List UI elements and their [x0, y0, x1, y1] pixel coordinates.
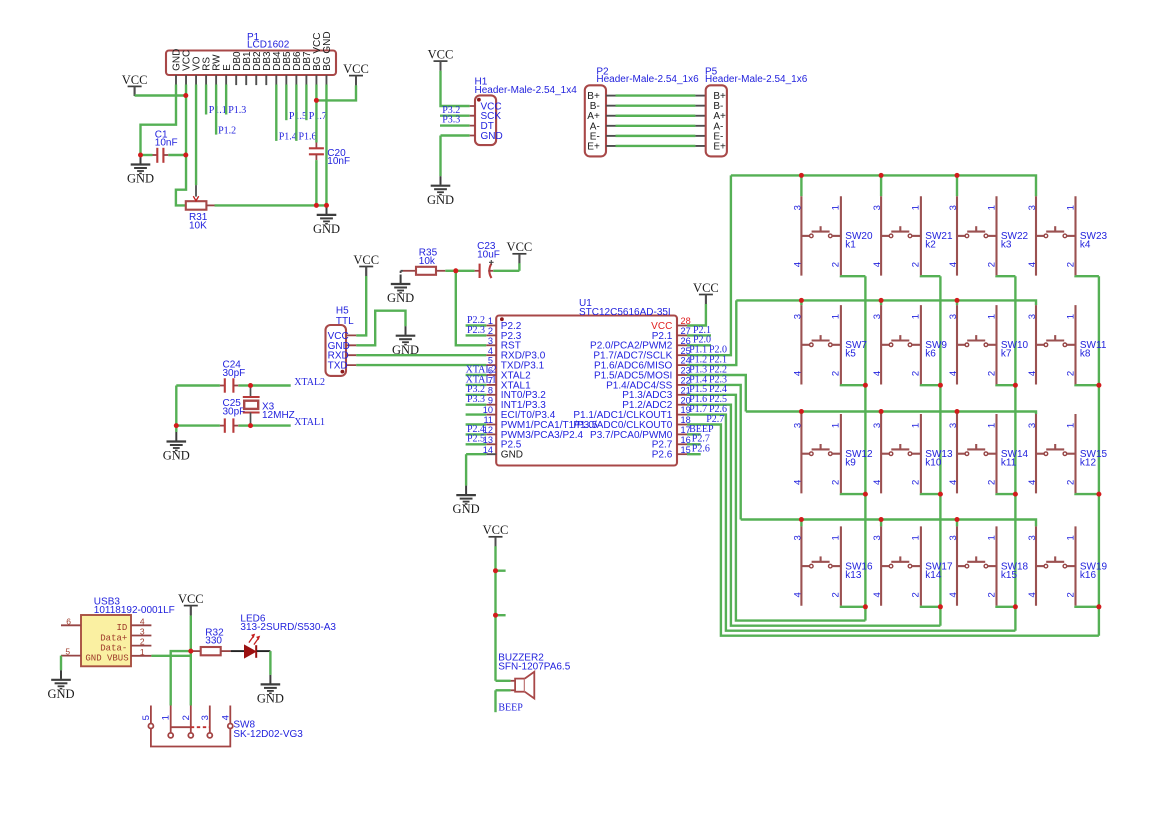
switch SW12 k9	[801, 414, 841, 493]
H1 pin names	[481, 102, 503, 143]
svg-text:XTAL2: XTAL2	[294, 377, 325, 388]
switch SW21 k2	[881, 196, 921, 275]
IC U1 STC12C5616AD-35I	[496, 316, 677, 466]
svg-text:k11: k11	[1001, 457, 1017, 468]
svg-text:4: 4	[948, 371, 959, 376]
wire LED cathode to ground	[269, 651, 271, 675]
svg-text:VCC: VCC	[428, 48, 454, 62]
wire SW12 pin2 to column	[841, 492, 866, 495]
wire U1 GND down	[465, 454, 467, 485]
svg-text:330: 330	[205, 636, 222, 647]
wire R35 to RST node	[445, 270, 456, 272]
svg-text:1: 1	[1065, 535, 1076, 540]
svg-text:GND: GND	[387, 291, 414, 305]
switch SW14 k11	[957, 414, 997, 493]
svg-text:10uF: 10uF	[477, 250, 500, 261]
wire H5 TXD to U1 TXD	[356, 364, 486, 366]
svg-text:VCC: VCC	[178, 592, 204, 606]
wire U1 pin27	[687, 334, 711, 336]
wire bus to SW21 pin3	[880, 175, 882, 196]
svg-text:k1: k1	[845, 240, 856, 251]
svg-text:3: 3	[792, 314, 803, 319]
svg-text:3: 3	[948, 535, 959, 540]
wire bus to SW13 pin3	[880, 412, 882, 415]
svg-text:4: 4	[948, 592, 959, 597]
wire P1 DB5 pin	[285, 85, 287, 121]
switch SW22 k3	[957, 196, 997, 275]
svg-text:3: 3	[872, 314, 883, 319]
svg-text:XTAL1: XTAL1	[294, 417, 325, 428]
wire bus to SW12 pin3	[800, 412, 802, 415]
switch SW11 k8	[1036, 305, 1076, 384]
svg-text:4: 4	[948, 262, 959, 267]
switch SW17 k14	[881, 526, 921, 605]
svg-text:4: 4	[1027, 592, 1038, 597]
wire SW19 pin2 to column	[1076, 606, 1099, 607]
svg-text:BG GND: BG GND	[322, 31, 333, 70]
svg-text:3: 3	[1027, 314, 1038, 319]
wire U1 pin25 to keypad row bus 1	[687, 175, 731, 355]
wire BEEP	[494, 690, 496, 712]
svg-text:1: 1	[986, 205, 997, 210]
junction	[863, 492, 868, 497]
junction	[1013, 383, 1018, 388]
wire SW16 pin2 to column	[841, 606, 866, 607]
wire U1 pin9	[466, 404, 487, 406]
wire SW20 pin2 to column	[841, 274, 866, 277]
svg-text:30pF: 30pF	[223, 368, 246, 379]
wire U1 pin19 to keypad column 3	[687, 415, 1015, 631]
svg-text:1: 1	[1065, 205, 1076, 210]
svg-text:E+: E+	[587, 141, 600, 152]
ground (U1)	[456, 486, 476, 504]
junction	[1096, 383, 1101, 388]
svg-text:P2.6: P2.6	[692, 444, 710, 455]
wire VCC to buzzer	[494, 546, 496, 681]
junction	[248, 423, 253, 428]
crystal X3 12MHZ	[243, 386, 260, 426]
svg-text:P1.2: P1.2	[218, 125, 236, 136]
wire keypad row bus 1	[731, 175, 1036, 196]
wire SW18 pin2 to column	[997, 606, 1016, 607]
wire bus to SW10 pin3	[956, 300, 958, 305]
junction	[799, 517, 804, 522]
switch SW16 k13	[801, 526, 841, 605]
svg-text:3: 3	[1027, 423, 1038, 428]
svg-text:k16: k16	[1080, 570, 1097, 581]
U1 pin numbers left 1-14	[483, 316, 493, 455]
svg-text:4: 4	[792, 592, 803, 597]
svg-text:2: 2	[488, 326, 493, 336]
svg-text:1: 1	[986, 423, 997, 428]
svg-text:P1.7: P1.7	[689, 404, 707, 415]
P1 pin stubs	[176, 75, 326, 85]
svg-text:2: 2	[1065, 592, 1076, 597]
U1 right pin names	[573, 321, 672, 461]
junction	[955, 298, 960, 303]
wire U1 pin8	[466, 394, 487, 396]
svg-text:3: 3	[140, 627, 145, 637]
svg-text:P3.3: P3.3	[467, 394, 485, 405]
junction	[799, 409, 804, 414]
junction	[324, 203, 329, 208]
svg-text:Data+: Data+	[100, 633, 127, 643]
capacitor C25 30pF	[176, 418, 250, 432]
wire U1 pin13	[466, 443, 487, 445]
svg-text:k13: k13	[845, 570, 862, 581]
wire P1 RW pin	[215, 85, 217, 135]
capacitor C1 10nF	[141, 148, 186, 163]
svg-text:2: 2	[831, 371, 842, 376]
svg-text:Header-Male-2.54_1x6: Header-Male-2.54_1x6	[596, 74, 699, 85]
wire bus to SW20 pin3	[800, 175, 802, 196]
svg-text:GND: GND	[47, 687, 74, 701]
wire bus to SW18 pin3	[956, 520, 958, 527]
svg-text:BEEP: BEEP	[498, 702, 523, 713]
ground (LED)	[261, 675, 281, 693]
wire SW21 pin2 to column	[921, 274, 941, 277]
svg-text:4: 4	[1027, 262, 1038, 267]
junction	[799, 173, 804, 178]
svg-text:4: 4	[948, 480, 959, 485]
svg-text:2: 2	[831, 592, 842, 597]
svg-text:3: 3	[792, 535, 803, 540]
svg-text:VCC: VCC	[122, 73, 148, 87]
svg-text:VCC: VCC	[693, 281, 719, 295]
ground (USB)	[51, 670, 71, 688]
svg-text:2: 2	[831, 262, 842, 267]
svg-text:3: 3	[200, 715, 211, 720]
wire SW14 pin2 to column	[997, 492, 1016, 495]
potentiometer R31 10K	[186, 185, 215, 210]
junction	[1013, 604, 1018, 609]
buzzer BUZZER2 SFN-1207PA6.5	[496, 672, 535, 699]
svg-text:3: 3	[872, 205, 883, 210]
svg-text:2: 2	[911, 480, 922, 485]
svg-text:SFN-1207PA6.5: SFN-1207PA6.5	[498, 661, 571, 672]
svg-text:3: 3	[1027, 205, 1038, 210]
svg-text:3: 3	[792, 205, 803, 210]
svg-text:GND: GND	[257, 692, 284, 706]
svg-text:LCD1602: LCD1602	[247, 40, 290, 51]
svg-text:3: 3	[872, 423, 883, 428]
capacitor C20 10nF	[309, 143, 324, 161]
svg-text:8: 8	[488, 385, 493, 395]
switch SW20 k1	[801, 196, 841, 275]
svg-text:2: 2	[140, 637, 145, 647]
svg-text:k5: k5	[845, 349, 856, 360]
svg-text:5: 5	[65, 647, 70, 657]
wire bus to SW22 pin3	[956, 175, 958, 196]
svg-text:1: 1	[911, 314, 922, 319]
U1 right pin leads	[677, 326, 687, 455]
junction	[1096, 604, 1101, 609]
svg-text:P1.7: P1.7	[309, 111, 327, 122]
wire bus to SW17 pin3	[880, 520, 882, 527]
svg-text:4: 4	[872, 592, 883, 597]
svg-text:k9: k9	[845, 457, 856, 468]
wire SW8 pin1 to node	[171, 651, 191, 705]
wire bus to SW16 pin3	[800, 520, 802, 527]
svg-text:1: 1	[986, 535, 997, 540]
svg-text:VCC: VCC	[507, 240, 533, 254]
svg-text:2: 2	[1065, 371, 1076, 376]
junction	[248, 383, 253, 388]
svg-text:1: 1	[488, 316, 493, 326]
junction	[493, 613, 498, 618]
svg-text:P2.6: P2.6	[652, 450, 673, 461]
svg-text:4: 4	[792, 262, 803, 267]
junction	[938, 492, 943, 497]
svg-text:H5: H5	[336, 305, 349, 316]
wire keypad column 2	[939, 276, 941, 626]
ground (H5)	[396, 326, 416, 344]
svg-text:GND VBUS: GND VBUS	[85, 654, 128, 664]
wire U1 pin1	[466, 324, 487, 326]
connector P5 Header-Male-2.54_1x6	[706, 85, 727, 156]
wire P1 DB7 pin	[305, 85, 307, 121]
svg-text:P2.5: P2.5	[467, 434, 485, 445]
svg-text:4: 4	[872, 480, 883, 485]
wire keypad column 3	[1014, 276, 1016, 631]
wire keypad column 1	[864, 276, 866, 620]
svg-text:1: 1	[911, 205, 922, 210]
svg-text:6: 6	[66, 616, 71, 626]
wire SW10 pin2 to column	[997, 383, 1016, 386]
svg-text:1: 1	[1065, 314, 1076, 319]
svg-text:Header-Male-2.54_1x4: Header-Male-2.54_1x4	[475, 85, 578, 96]
wire U1 pin22 to keypad row bus 4	[687, 385, 741, 520]
wire H1 DT pin	[440, 124, 470, 126]
capacitor C24 30pF	[176, 378, 250, 392]
wire to ground (crystal)	[175, 426, 177, 432]
svg-text:3: 3	[872, 535, 883, 540]
wire keypad row bus 2	[736, 300, 1036, 305]
svg-text:2: 2	[1065, 480, 1076, 485]
junction	[863, 383, 868, 388]
U1 left pin leads	[486, 326, 496, 455]
connector P2 Header-Male-2.54_1x6	[585, 85, 606, 156]
svg-text:3: 3	[948, 423, 959, 428]
wire VCC to H5 VCC pin	[356, 276, 366, 335]
wire U1 pin12	[466, 433, 487, 435]
svg-text:VCC: VCC	[353, 253, 379, 267]
svg-text:10nF: 10nF	[155, 138, 178, 149]
svg-text:GND: GND	[163, 449, 190, 463]
svg-text:10k: 10k	[419, 256, 436, 267]
svg-text:k15: k15	[1001, 570, 1018, 581]
wire U1 pin16	[687, 443, 701, 445]
wire U1 pin24 to keypad row bus 2	[687, 300, 736, 365]
svg-text:1: 1	[831, 535, 842, 540]
junction	[188, 649, 193, 654]
switch SW18 k15	[957, 526, 997, 605]
svg-text:k10: k10	[925, 457, 942, 468]
wire U1 pin26	[687, 344, 711, 346]
svg-text:9: 9	[488, 395, 493, 405]
wire R31 to GND node	[215, 204, 327, 206]
svg-text:3: 3	[792, 423, 803, 428]
svg-text:2: 2	[911, 262, 922, 267]
switch SW15 k12	[1036, 414, 1076, 493]
svg-text:5: 5	[141, 715, 152, 720]
svg-text:VCC: VCC	[483, 523, 509, 537]
svg-text:2: 2	[831, 480, 842, 485]
wire RST node to U1 RST pin	[456, 271, 487, 346]
svg-text:12MHZ: 12MHZ	[262, 410, 295, 421]
svg-text:Header-Male-2.54_1x6: Header-Male-2.54_1x6	[705, 74, 808, 85]
wire U1 VCC pin28	[687, 304, 706, 326]
P2-P5 wires	[606, 96, 706, 146]
svg-text:k7: k7	[1001, 349, 1012, 360]
svg-text:4: 4	[1027, 480, 1038, 485]
U1 pin numbers right 28-15	[681, 316, 691, 455]
svg-text:k12: k12	[1080, 457, 1097, 468]
junction	[493, 568, 498, 573]
wire C20 to GND node	[315, 160, 317, 205]
wire USB VBUS	[151, 655, 190, 657]
junction	[1013, 492, 1018, 497]
wire H1 GND pin down	[439, 136, 441, 177]
svg-text:3: 3	[948, 205, 959, 210]
wire U1 pin15	[687, 453, 701, 455]
connector P1 LCD1602	[166, 51, 336, 76]
wire U1 pin7	[466, 384, 487, 386]
svg-text:Data-: Data-	[100, 643, 127, 653]
junction	[879, 298, 884, 303]
svg-text:2: 2	[986, 371, 997, 376]
svg-text:SK-12D02-VG3: SK-12D02-VG3	[233, 729, 303, 740]
svg-text:2: 2	[911, 371, 922, 376]
wire U1 pin6	[466, 374, 487, 376]
svg-text:2: 2	[1065, 262, 1076, 267]
svg-text:1: 1	[161, 715, 172, 720]
wire USB GND	[60, 656, 62, 671]
wire bus to SW14 pin3	[956, 412, 958, 415]
wire H5 GND pin to ground	[356, 311, 405, 346]
junction	[314, 98, 319, 103]
wire U1 pin18 to keypad column 4	[687, 425, 1099, 636]
ground (H1)	[431, 176, 451, 194]
wire P1 BG GND pin down	[325, 85, 327, 206]
svg-text:ID: ID	[116, 623, 127, 633]
USB pin numbers	[65, 616, 144, 657]
svg-text:k14: k14	[925, 570, 942, 581]
wire keypad row bus 3	[746, 412, 1036, 415]
LED LED6 313-2SURD/S530-A3	[231, 634, 271, 658]
svg-text:2: 2	[986, 262, 997, 267]
svg-text:4: 4	[872, 371, 883, 376]
junction	[138, 153, 143, 158]
svg-text:GND: GND	[501, 450, 523, 461]
switch SW8 SK-12D02-VG3	[148, 706, 232, 747]
svg-text:P1.5: P1.5	[289, 111, 307, 122]
svg-text:4: 4	[792, 371, 803, 376]
switch SW10 k7	[957, 305, 997, 384]
wire bus to SW9 pin3	[880, 300, 882, 305]
switch SW7 k5	[801, 305, 841, 384]
svg-text:3: 3	[1027, 535, 1038, 540]
wire SW15 pin2 to column	[1076, 492, 1099, 495]
wire U1 pin17	[687, 433, 701, 435]
svg-text:10nF: 10nF	[327, 156, 350, 167]
USB connector USB3 10118192-0001LF	[61, 615, 151, 666]
wire U1 pin11	[466, 423, 487, 425]
wire U1 pin23 to keypad row bus 3	[687, 375, 746, 412]
switch SW9 k6	[881, 305, 921, 384]
wire SW23 pin2 to column	[1076, 274, 1099, 277]
ground (right of R31)	[317, 205, 337, 223]
wire P1 BG VCC pin to C20	[315, 85, 317, 143]
svg-text:P1.1: P1.1	[209, 105, 227, 116]
switch SW23 k4	[1036, 196, 1076, 275]
svg-text:3: 3	[488, 336, 493, 346]
svg-text:P1.3: P1.3	[228, 105, 246, 116]
svg-text:GND: GND	[481, 131, 503, 142]
svg-text:2: 2	[911, 592, 922, 597]
junction	[955, 517, 960, 522]
SW8 pin numbers	[141, 715, 231, 720]
connector H5 TTL	[326, 325, 357, 376]
wire P1 VCC pin down to R31	[176, 85, 186, 206]
wire U1 GND pin	[466, 453, 486, 455]
wire H5 RXD to U1 RXD	[356, 354, 486, 356]
wire VCC to P1 VCC pin	[135, 94, 186, 96]
svg-text:P1.6: P1.6	[299, 132, 317, 143]
svg-text:30pF: 30pF	[223, 406, 246, 417]
junction	[799, 298, 804, 303]
wire VCC to SW8 pin2	[190, 616, 192, 706]
wire P1 E pin	[225, 85, 227, 115]
svg-text:k3: k3	[1001, 240, 1012, 251]
junction	[938, 383, 943, 388]
wire VCC to BG VCC node	[316, 85, 356, 100]
junction	[863, 604, 868, 609]
wire bus to SW7 pin3	[800, 300, 802, 305]
svg-text:1: 1	[140, 647, 145, 657]
svg-text:3: 3	[948, 314, 959, 319]
junction	[879, 517, 884, 522]
svg-text:313-2SURD/S530-A3: 313-2SURD/S530-A3	[240, 622, 336, 633]
junction	[879, 173, 884, 178]
wire P1 GND pin to C1 node	[141, 85, 177, 156]
junction	[879, 409, 884, 414]
svg-text:1: 1	[911, 423, 922, 428]
switch SW13 k10	[881, 414, 921, 493]
junction	[955, 173, 960, 178]
wire U1 pin2	[466, 334, 487, 336]
svg-text:GND: GND	[427, 193, 454, 207]
svg-text:4: 4	[1027, 371, 1038, 376]
svg-text:1: 1	[911, 535, 922, 540]
wire SW11 pin2 to column	[1076, 383, 1099, 386]
wire H1 SCK pin	[440, 114, 470, 116]
junction	[183, 93, 188, 98]
svg-text:GND: GND	[453, 502, 480, 516]
svg-text:4: 4	[140, 616, 145, 626]
svg-text:10K: 10K	[189, 220, 207, 231]
svg-text:k2: k2	[925, 240, 936, 251]
svg-text:k4: k4	[1080, 240, 1091, 251]
svg-text:1: 1	[986, 314, 997, 319]
connector H1 Header-Male-2.54_1x4	[470, 95, 496, 145]
wire H1 GND pin	[441, 134, 470, 136]
wire XTAL1	[251, 424, 291, 426]
svg-text:TTL: TTL	[336, 316, 354, 327]
svg-text:1: 1	[1065, 423, 1076, 428]
svg-text:E+: E+	[713, 141, 726, 152]
resistor R32 330	[191, 647, 231, 655]
